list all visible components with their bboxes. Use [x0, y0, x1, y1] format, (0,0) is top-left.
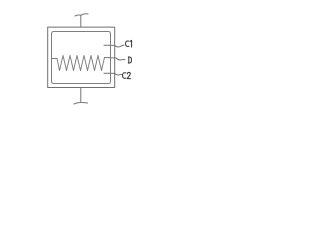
top terminal wire: [80, 15, 82, 27]
leader line C1: [104, 45, 124, 47]
label D: [128, 57, 131, 63]
top terminal: [75, 14, 88, 16]
leader line C2: [104, 73, 122, 75]
label C1: [126, 40, 132, 47]
resistive element D: [52, 56, 105, 71]
electrode C1: [52, 32, 111, 59]
leader line D: [105, 58, 126, 60]
outer case: [48, 27, 115, 87]
electrode C2: [52, 58, 111, 84]
bottom terminal: [74, 102, 88, 104]
bottom terminal wire: [80, 88, 82, 103]
label C2: [123, 72, 131, 78]
